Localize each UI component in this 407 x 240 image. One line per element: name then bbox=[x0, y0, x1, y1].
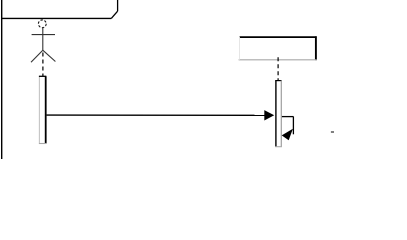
actor left leg bbox=[31, 50, 43, 62]
activation bar A1 right edge bbox=[45, 76, 47, 143]
actor arms bbox=[32, 34, 55, 36]
frame left edge bbox=[1, 0, 3, 159]
self message horizontal segment bbox=[282, 116, 294, 118]
object box top edge bbox=[240, 36, 317, 38]
object box right edge bbox=[315, 36, 317, 60]
activation bar A2 fill bbox=[276, 81, 281, 147]
object lifeline (dashed) bbox=[277, 57, 279, 80]
self message arrowhead bbox=[282, 129, 293, 141]
self message label dash bbox=[331, 131, 334, 133]
actor lifeline (dashed) bbox=[42, 53, 44, 77]
frame tab bevel bbox=[111, 11, 117, 18]
activation bar A1 bottom edge bbox=[39, 143, 46, 145]
activation bar A2 left edge bbox=[275, 81, 277, 147]
frame tab right edge bbox=[117, 0, 119, 11]
message arrowhead bbox=[264, 110, 274, 120]
activation bar A1 fill bbox=[39, 76, 45, 143]
activation bar A1 top edge bbox=[39, 75, 46, 77]
message line bbox=[47, 114, 266, 116]
object box bottom edge bbox=[239, 59, 317, 61]
activation bar A1 left edge bbox=[38, 76, 40, 143]
actor body bbox=[42, 28, 44, 50]
activation bar A2 right edge bbox=[280, 81, 282, 147]
actor head bbox=[38, 20, 46, 28]
frame tab bottom bbox=[1, 17, 111, 19]
object box left edge bbox=[239, 37, 241, 60]
self message vertical segment bbox=[292, 117, 294, 135]
activation bar A2 bottom edge bbox=[275, 146, 282, 148]
activation bar A2 top edge bbox=[275, 80, 281, 82]
actor right leg bbox=[43, 50, 56, 61]
